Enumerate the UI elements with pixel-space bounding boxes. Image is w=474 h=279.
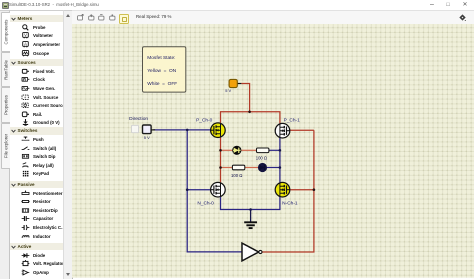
wire right red column — [261, 130, 313, 252]
wire bridge top rail horizontal (red) — [220, 112, 279, 124]
junction row1 right — [278, 149, 281, 152]
canvas — [72, 24, 474, 278]
svg-text:5 V: 5 V — [143, 135, 149, 140]
svg-text:P_Ch-1: P_Ch-1 — [283, 118, 300, 124]
wire rail to bridge top (red) — [241, 84, 249, 112]
junction at rail drop — [248, 111, 251, 114]
svg-text:5 V: 5 V — [225, 88, 231, 93]
wire branch to N_Ch-0 gate (blue) — [187, 189, 210, 191]
svg-text:V: V — [24, 33, 27, 38]
toolbar — [72, 10, 474, 26]
svg-text:A: A — [24, 41, 27, 46]
svg-text:100 Ω: 100 Ω — [255, 156, 266, 161]
mosfet N-Ch-1 (yellow, on) — [275, 183, 298, 207]
text box: Mosfet State legend — [142, 47, 185, 92]
wire P_Ch-1 gate to right column (red) — [289, 129, 313, 131]
junction row1 left — [219, 149, 222, 152]
junction row2 left — [219, 166, 222, 169]
svg-text:N_Ch-0: N_Ch-0 — [197, 201, 214, 207]
wire LED D2 cathode to node B — [266, 167, 279, 169]
svg-text:P_Ch-0: P_Ch-0 — [196, 118, 213, 124]
mosfet N_Ch-0 (white, off) — [197, 183, 225, 207]
ground symbol — [244, 210, 257, 229]
svg-text:Direction: Direction — [129, 116, 148, 122]
junction ground tap — [249, 208, 252, 211]
wire LED D1 cathode to resistor R1 — [241, 150, 256, 152]
wire blue vertical to NOT input — [187, 130, 242, 252]
wire right mid vertical (blue, P_Ch-1 source to N-Ch-1 drain) — [278, 138, 280, 182]
wire resistor R2 to LED D2 anode — [244, 167, 257, 169]
svg-text:+: + — [23, 94, 26, 99]
palette — [10, 10, 64, 279]
direction switch SW1 (fixed volt 5 V) — [129, 116, 155, 140]
LED D2 (off, dark) — [257, 163, 266, 172]
wire node A to LED D1 anode — [220, 150, 232, 152]
wire N-Ch-1 gate branch (red) — [289, 189, 313, 191]
resistor R2 100 Ohm — [231, 165, 245, 178]
wire left mid vertical (red, P_Ch-0 source to N_Ch-0 drain) — [219, 138, 221, 183]
mosfet P_Ch-1 (white, off) — [275, 118, 300, 139]
resistor R1 100 Ohm — [255, 148, 268, 161]
wire node A to resistor R2 — [220, 167, 232, 169]
svg-text:100 Ω: 100 Ω — [231, 173, 242, 178]
svg-text:N-Ch-1: N-Ch-1 — [282, 201, 298, 207]
NOT gate U1 — [242, 243, 262, 261]
junction right column gate — [312, 189, 315, 192]
wire resistor R1 to node B — [268, 150, 279, 152]
diamond logo right of toolbar — [459, 14, 466, 21]
wire sources to ground rail (blue) — [220, 197, 279, 209]
junction gate node top — [185, 129, 188, 132]
junction gate node bottom — [185, 189, 188, 192]
LED D1 (on, yellow) — [232, 146, 241, 155]
title bar — [0, 0, 474, 10]
rail V1 (5 V) — [225, 80, 241, 94]
mosfet P_Ch-0 (yellow, on) — [196, 118, 225, 138]
svg-text:Mosfet State:: Mosfet State: — [147, 55, 175, 61]
palette scrollbar — [63, 10, 73, 279]
left tab strip — [0, 10, 10, 279]
svg-text:Yellow = ON: Yellow = ON — [147, 68, 176, 74]
junction row2 right — [278, 166, 281, 169]
wire direction switch to gates (blue) — [153, 129, 210, 131]
svg-text:White = OFF: White = OFF — [147, 81, 177, 87]
